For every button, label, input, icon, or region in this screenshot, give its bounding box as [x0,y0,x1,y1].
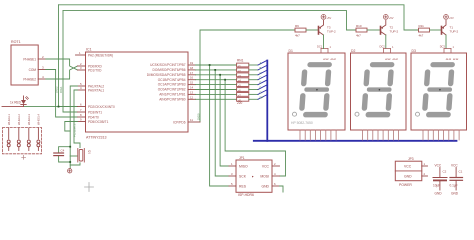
ISP tap vertical 4 mosi [225,80,285,176]
svg-text:4k7: 4k7 [295,33,300,37]
wire LED left stub [2,106,24,108]
svg-text:PHASE2: PHASE2 [23,77,36,81]
segment net labels [260,61,264,99]
display D3 top pins [444,49,451,54]
crystal circuit wires [70,86,77,168]
svg-text:D: D [260,76,262,80]
junction xtal a [69,146,71,148]
svg-text:C1: C1 [459,169,463,173]
wire digit line1 top [59,5,419,30]
svg-text:C4: C4 [61,149,65,153]
svg-text:16: 16 [190,76,194,80]
svg-text:«« ««: «« «« [385,58,398,62]
wire LED to PD2 [24,106,78,108]
origin cross jumpers [22,155,26,159]
wire phase2 [46,66,78,79]
wire R9 to T3 [306,29,318,31]
supply +5V T1 [444,15,449,20]
svg-text:DI/MOSI/SDA/PCINT5/PB5: DI/MOSI/SDA/PCINT5/PB5 [147,73,186,77]
svg-text:RES: RES [239,184,247,188]
svg-text:0.1µF: 0.1µF [450,183,458,187]
MCU right pins [188,65,200,122]
wire xtal1 [74,90,80,148]
svg-text:GND: GND [404,174,412,178]
svg-text:G: G [260,90,262,94]
solder jumper SJ2 [17,128,20,151]
svg-text:COM: COM [29,68,37,72]
wire PD5 stub [65,122,78,132]
svg-text:VCC: VCC [262,164,270,168]
svg-text:DC1: DC1 [317,45,323,49]
bus entry wires [249,65,258,99]
svg-text:POWER: POWER [399,183,412,187]
svg-text:17: 17 [190,71,194,75]
svg-text:VCC: VCC [435,164,442,168]
MCU IC1 box [86,52,189,132]
svg-text:PD1/TXD: PD1/TXD [88,68,102,72]
svg-text:14: 14 [190,86,194,90]
MCU left pin numbers [79,51,82,122]
wire com to PD4 [46,70,78,118]
POWER connector pin numbers [424,162,426,176]
svg-text:TUP-2: TUP-2 [450,30,459,34]
wire crystal left [70,155,77,157]
svg-text:VCC: VCC [451,164,458,168]
svg-text:C2: C2 [443,169,447,173]
resistor RN1 elements [237,63,249,101]
svg-text:DP: DP [260,95,264,99]
svg-text:18: 18 [190,66,194,70]
capacitor C1 [450,164,463,196]
svg-text:SCK: SCK [239,174,247,178]
solder jumper SJ3 [27,128,30,151]
wire digit line1 left vertical [59,5,78,107]
svg-text:4k7: 4k7 [419,33,424,37]
svg-text:AIN0/PCINT0/PB0: AIN0/PCINT0/PB0 [159,97,185,101]
svg-text:WHEEL4: WHEEL4 [37,113,41,125]
svg-text:FC/12MTZ: FC/12MTZ [73,123,77,137]
svg-text:R9: R9 [295,24,299,28]
svg-text:OC1B/PCINT4/PB4: OC1B/PCINT4/PB4 [158,78,186,82]
junction LED row [58,106,60,108]
ISP tap vertical 1 [210,65,229,186]
svg-text:GND: GND [261,184,269,188]
svg-text:MISO: MISO [239,164,248,168]
transistor T3 [319,21,324,36]
svg-text:19: 19 [190,61,194,65]
LED1 [21,96,29,107]
svg-text:R10: R10 [356,24,362,28]
connector X1 texts [23,57,36,81]
ISP tap vertical 3 [220,75,229,166]
crystal Q1 [78,149,85,163]
svg-text:JP3: JP3 [408,157,414,161]
wire cap top [59,147,71,153]
svg-text:PA2 (RESET/dW): PA2 (RESET/dW) [88,53,113,57]
connector X1 box [11,45,38,85]
ISP header JP1 box [236,160,272,192]
bus horizontal [254,140,457,142]
wire digit line2 top [63,11,356,30]
svg-text:E: E [260,81,262,85]
svg-text:ROT1: ROT1 [11,40,21,44]
display D3 bottom pins [423,130,459,140]
POWER connector divider [395,170,422,172]
svg-text:11: 11 [190,118,193,122]
MCU left pins [76,55,86,122]
supply +5V T2 [383,15,388,20]
solder jumper SJ1 [7,128,10,151]
wire digit line2 left vertical [63,11,78,112]
svg-text:PD3/INT1: PD3/INT1 [88,110,102,114]
svg-text:HP 5082-7650: HP 5082-7650 [291,121,313,125]
transistor T1 [442,21,447,36]
MCU right pin texts [147,63,186,124]
svg-text:OC0A/PCINT2/PB2: OC0A/PCINT2/PB2 [158,88,186,92]
svg-text:UCSK/SCK/PCINT7/PB7: UCSK/SCK/PCINT7/PB7 [150,63,186,67]
ISP header pins [229,166,280,186]
display D1 [288,49,345,130]
display D3 [411,49,467,130]
svg-text:JP1: JP1 [239,156,245,160]
svg-text:DO/MISO/PCINT6/PB6: DO/MISO/PCINT6/PB6 [153,68,186,72]
wire cap bottom [59,156,71,162]
svg-text:DIG0: DIG0 [197,113,201,120]
svg-text:MOSI: MOSI [260,174,269,178]
resistor R10 [356,28,367,32]
display D2 top pins [384,49,391,54]
wire T2 collector to D2 [385,35,387,49]
svg-text:WHEEL3: WHEEL3 [27,113,31,125]
junction xtal b [69,161,71,163]
solder jumper SJ4 [37,128,40,151]
svg-text:WHEEL1: WHEEL1 [7,113,11,125]
jumper frame dashed box [3,128,42,154]
POWER connector JP3 box [395,161,422,181]
svg-text:ICP/PD6: ICP/PD6 [173,120,186,124]
wire R11 to T1 [430,29,442,31]
svg-text:13: 13 [190,90,194,94]
svg-text:1x RED: 1x RED [10,101,22,105]
capacitor C2 [433,164,447,196]
display D2 [351,49,407,130]
jumper net labels [7,113,41,125]
svg-text:10µF: 10µF [433,183,440,187]
svg-text:C: C [260,71,262,75]
svg-text:DIG2: DIG2 [55,86,59,93]
resistor internal marks [238,64,241,102]
svg-text:PD2/CKX/CK/INT0: PD2/CKX/CK/INT0 [88,105,115,109]
resistor R11 [419,28,430,32]
wire crystal bottom [70,163,80,165]
svg-text:+5V: +5V [449,16,454,20]
svg-text:+5V: +5V [389,16,394,20]
svg-text:PHASE1: PHASE1 [23,57,36,61]
svg-text:«« ««: «« «« [446,58,459,62]
junction tap2 [214,69,216,71]
wire T3 collector to D1 [323,35,325,49]
wire R10 to T2 [367,29,380,31]
svg-text:ATTINY2313: ATTINY2313 [86,136,107,140]
svg-text:VCC: VCC [404,165,412,169]
connector X1 pin numbers [42,55,44,79]
svg-text:AIN1/PCINT1/PB1: AIN1/PCINT1/PB1 [159,93,185,97]
svg-text:GND: GND [451,191,459,195]
connector X1 pins [38,59,46,79]
wire ISP GND [280,186,284,192]
wire digit line3 from ICP [200,30,295,122]
svg-text:R11: R11 [419,24,425,28]
POWER connector texts [404,165,412,179]
svg-text:WHEEL2: WHEEL2 [17,113,21,125]
POWER connector pins [422,166,428,176]
resistor R9 [295,28,306,32]
capacitor C4 plates [54,153,64,156]
svg-text:GND: GND [435,191,443,195]
svg-text:D1: D1 [289,49,293,53]
junction tap1 [209,64,211,66]
MCU left pin texts [88,53,115,124]
svg-text:B: B [260,66,262,70]
svg-text:D2: D2 [351,49,355,53]
svg-text:DC3: DC3 [440,45,446,49]
bus vertical [266,61,268,141]
display D1 top pins [321,49,328,54]
supply +5V T3 [321,15,326,20]
svg-text:ISP-HDR6: ISP-HDR6 [238,193,254,197]
ISP tap vertical 2 [215,70,229,176]
svg-text:PD4/T0: PD4/T0 [88,115,99,119]
origin cross bottom middle [85,183,94,192]
MCU right pin numbers [190,61,194,122]
svg-text:TUP-2: TUP-2 [390,30,399,34]
svg-text:PA0/XTAL1: PA0/XTAL1 [88,88,104,92]
bus entries diagonal [258,60,267,99]
wire T1 collector to D3 [445,35,447,49]
svg-text:Q1: Q1 [88,150,92,154]
svg-text:A: A [260,61,262,65]
svg-text:F: F [260,86,262,90]
display D1 bottom pins [300,130,336,140]
svg-text:DIG1: DIG1 [59,86,63,93]
ISP header texts [239,164,270,188]
svg-text:▸: ▸ [252,174,254,178]
transistor T2 [381,21,386,36]
svg-text:PD5/OC0B/T1: PD5/OC0B/T1 [88,120,109,124]
svg-text:IC1: IC1 [86,48,92,52]
supply symbol xtal gnd [68,169,72,173]
segment wires from MCU to resistors [196,65,237,99]
ISP header pin numbers [231,162,276,186]
svg-text:12: 12 [190,95,194,99]
svg-text:D3: D3 [412,49,416,53]
svg-text:DC2: DC2 [380,45,386,49]
svg-text:«« ««: «« «« [323,58,336,62]
junction tap3 [219,74,221,76]
svg-text:+5V: +5V [327,16,332,20]
svg-text:OC1A/PCINT3/PB3: OC1A/PCINT3/PB3 [158,83,186,87]
svg-text:RN1: RN1 [237,59,244,63]
svg-text:15: 15 [190,81,194,85]
junction tap4 [224,79,226,81]
display D2 bottom pins [363,130,399,140]
svg-text:TUP-2: TUP-2 [327,30,336,34]
svg-text:4k7: 4k7 [356,33,361,37]
wire phase1 [46,59,78,70]
